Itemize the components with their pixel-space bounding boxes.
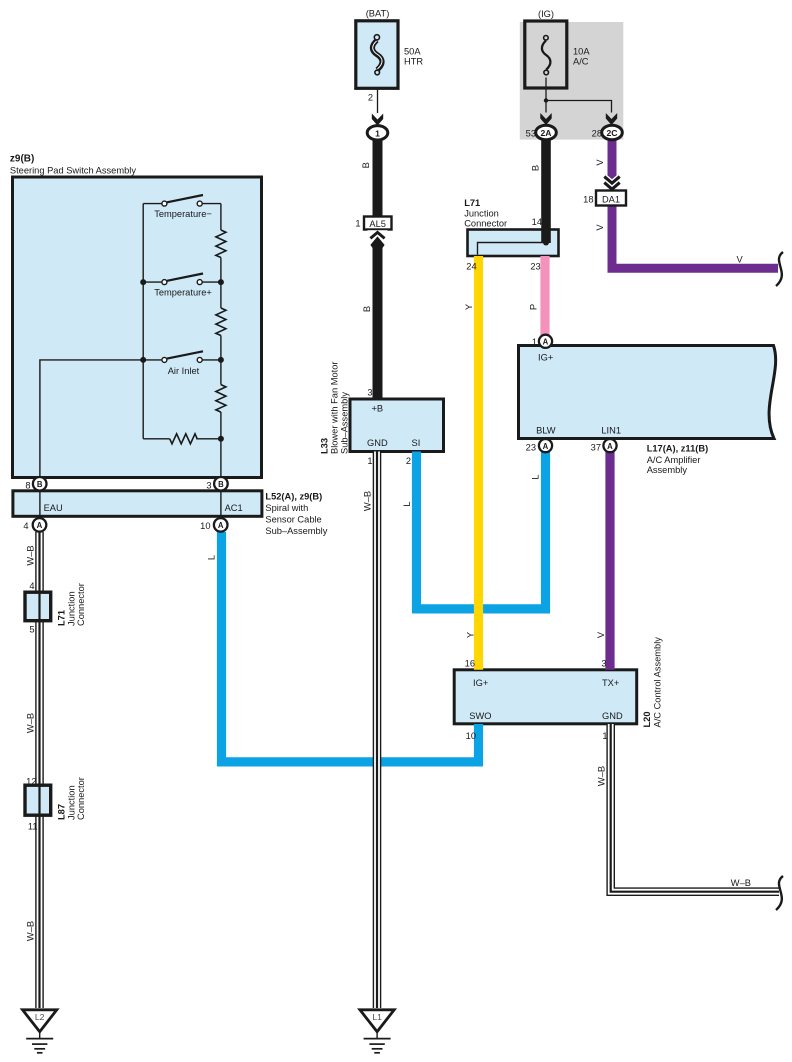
svg-text:8: 8 [25, 480, 30, 490]
svg-text:V: V [737, 255, 744, 265]
svg-text:A: A [37, 521, 43, 530]
svg-text:A: A [543, 442, 549, 451]
svg-text:(BAT): (BAT) [366, 9, 390, 19]
svg-text:L87: L87 [57, 804, 67, 820]
svg-text:Connector: Connector [76, 583, 86, 626]
svg-text:1: 1 [367, 456, 372, 466]
svg-text:24: 24 [466, 262, 476, 272]
svg-text:P: P [529, 304, 539, 310]
svg-text:Temperature+: Temperature+ [154, 287, 212, 297]
svg-text:Temperature−: Temperature− [154, 209, 212, 219]
svg-text:L: L [531, 474, 541, 479]
svg-text:Junction: Junction [67, 785, 77, 820]
svg-text:50A: 50A [404, 47, 421, 57]
svg-text:Assembly: Assembly [647, 465, 688, 475]
svg-text:IG+: IG+ [473, 678, 488, 688]
svg-text:A/C Control Assembly: A/C Control Assembly [652, 637, 662, 728]
svg-text:Spiral with: Spiral with [265, 503, 308, 513]
svg-text:B: B [218, 480, 224, 489]
svg-text:L: L [207, 555, 217, 560]
svg-text:1: 1 [355, 219, 360, 229]
svg-text:Connector: Connector [464, 219, 507, 229]
svg-text:SWO: SWO [469, 711, 491, 721]
svg-text:Steering Pad Switch Assembly: Steering Pad Switch Assembly [10, 166, 136, 176]
svg-text:4: 4 [23, 521, 28, 531]
svg-text:Y: Y [466, 632, 476, 638]
svg-text:12: 12 [26, 777, 36, 787]
svg-text:14: 14 [532, 217, 542, 227]
svg-text:DA1: DA1 [602, 195, 620, 205]
svg-text:A/C: A/C [573, 57, 589, 67]
svg-text:2A: 2A [541, 128, 552, 138]
svg-text:L52(A), z9(B): L52(A), z9(B) [265, 491, 322, 501]
svg-text:HTR: HTR [404, 57, 423, 67]
svg-text:L71: L71 [57, 610, 67, 626]
svg-text:1: 1 [375, 128, 380, 138]
svg-text:W–B: W–B [731, 878, 751, 888]
svg-text:z9(B): z9(B) [10, 154, 34, 165]
svg-text:+B: +B [372, 404, 384, 414]
svg-text:53: 53 [526, 129, 536, 139]
svg-text:Sub–Assembly: Sub–Assembly [340, 392, 350, 454]
svg-text:18: 18 [583, 195, 593, 205]
svg-text:Junction: Junction [464, 209, 499, 219]
svg-text:4: 4 [29, 581, 34, 591]
svg-text:L2: L2 [35, 1012, 45, 1022]
svg-text:Blower with Fan Motor: Blower with Fan Motor [330, 362, 340, 454]
svg-text:V: V [595, 159, 605, 166]
svg-text:(IG): (IG) [538, 9, 554, 19]
svg-text:W–B: W–B [26, 713, 36, 733]
svg-text:L20: L20 [642, 711, 652, 727]
svg-text:2: 2 [406, 456, 411, 466]
svg-text:3: 3 [367, 388, 372, 398]
svg-text:A: A [218, 521, 224, 530]
svg-text:1: 1 [532, 337, 537, 347]
svg-text:L17(A), z11(B): L17(A), z11(B) [647, 444, 708, 454]
svg-text:W–B: W–B [597, 766, 607, 786]
svg-text:5: 5 [29, 625, 34, 635]
svg-text:B: B [361, 162, 371, 168]
svg-text:BLW: BLW [536, 425, 556, 435]
svg-text:EAU: EAU [44, 503, 63, 513]
svg-text:10: 10 [200, 521, 210, 531]
svg-text:A/C Amplifier: A/C Amplifier [647, 455, 701, 465]
svg-text:SI: SI [412, 438, 421, 448]
svg-text:2C: 2C [607, 128, 618, 138]
svg-text:3: 3 [601, 659, 606, 669]
svg-text:3: 3 [206, 480, 211, 490]
svg-text:B: B [531, 165, 541, 171]
svg-text:10A: 10A [573, 47, 590, 57]
svg-text:Junction: Junction [67, 591, 77, 626]
svg-text:AC1: AC1 [225, 503, 243, 513]
svg-text:1: 1 [602, 731, 607, 741]
svg-text:16: 16 [465, 659, 475, 669]
svg-text:10: 10 [466, 731, 476, 741]
svg-text:GND: GND [602, 711, 623, 721]
svg-text:L71: L71 [464, 198, 480, 208]
svg-text:Sub–Assembly: Sub–Assembly [265, 526, 327, 536]
svg-text:B: B [362, 306, 372, 312]
svg-text:11: 11 [28, 822, 38, 832]
svg-text:Sensor Cable: Sensor Cable [265, 515, 321, 525]
svg-text:A: A [607, 442, 613, 451]
svg-text:TX+: TX+ [602, 678, 619, 688]
svg-text:L1: L1 [372, 1012, 382, 1022]
svg-text:IG+: IG+ [538, 352, 553, 362]
svg-text:AL5: AL5 [369, 219, 386, 229]
svg-text:L33: L33 [320, 438, 330, 454]
svg-text:V: V [595, 224, 605, 231]
svg-text:LIN1: LIN1 [601, 425, 621, 435]
svg-text:V: V [596, 631, 606, 638]
svg-text:Connector: Connector [76, 777, 86, 820]
svg-text:A: A [543, 338, 549, 347]
svg-text:GND: GND [367, 438, 388, 448]
svg-text:23: 23 [526, 442, 536, 452]
svg-text:2: 2 [368, 93, 373, 103]
svg-text:23: 23 [530, 262, 540, 272]
svg-text:W–B: W–B [363, 491, 373, 511]
svg-text:Air Inlet: Air Inlet [168, 366, 200, 376]
svg-text:W–B: W–B [26, 545, 36, 565]
svg-text:L: L [402, 501, 412, 506]
svg-text:28: 28 [592, 129, 602, 139]
svg-text:Y: Y [464, 304, 474, 310]
svg-text:37: 37 [591, 442, 601, 452]
svg-text:W–B: W–B [26, 921, 36, 941]
svg-text:B: B [37, 480, 43, 489]
